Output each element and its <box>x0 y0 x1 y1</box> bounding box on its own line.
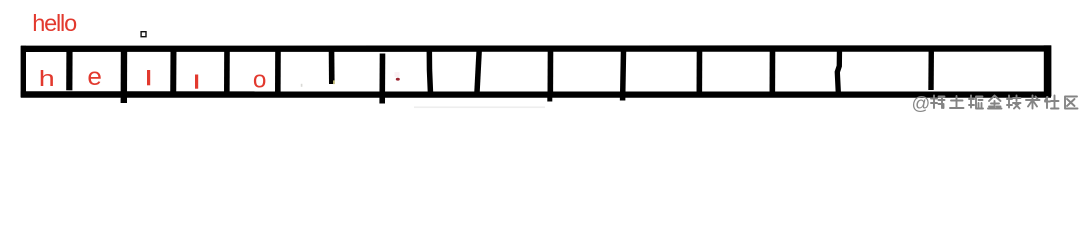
watermark char 社 <box>1045 96 1059 109</box>
divider 10 blob below <box>547 97 552 102</box>
divider 12 <box>696 48 702 97</box>
divider 11 <box>620 51 626 101</box>
watermark char 技 <box>1007 96 1021 109</box>
divider 15 (short, tapered) <box>928 48 934 90</box>
svg-text:hello: hello <box>32 10 77 36</box>
watermark char 区 <box>1065 97 1078 109</box>
cell letter l (second) <box>195 75 198 89</box>
faint gray smudge <box>301 84 303 87</box>
divider 10 <box>547 48 553 95</box>
svg-text:o: o <box>253 67 267 94</box>
svg-text:@: @ <box>912 93 931 114</box>
array box right border <box>1044 45 1052 96</box>
divider 2 <box>121 48 128 103</box>
watermark char 稀 <box>931 96 945 109</box>
watermark char 金 <box>988 96 1002 109</box>
divider 1 <box>66 48 72 90</box>
divider 4 <box>224 48 230 96</box>
divider 6 (short) <box>329 48 335 84</box>
watermark group <box>912 93 1078 114</box>
faint yellow smudge <box>333 80 335 84</box>
divider 13 <box>769 48 775 97</box>
divider 8 <box>429 48 430 96</box>
divider 5 <box>275 48 281 95</box>
watermark char 掘 <box>969 96 983 109</box>
small square marker <box>141 32 146 37</box>
divider 9 <box>477 48 480 96</box>
array box top border <box>21 45 1051 52</box>
watermark char 术 <box>1026 96 1040 109</box>
array box left border <box>21 46 26 97</box>
small red dot <box>396 78 400 81</box>
svg-text:e: e <box>87 64 102 91</box>
divider 14 <box>837 48 839 97</box>
cell letter l <box>147 70 150 85</box>
faint smear under box <box>414 106 545 108</box>
divider 3 <box>170 48 176 96</box>
svg-text:h: h <box>39 67 55 91</box>
array box bottom border <box>21 91 1051 97</box>
watermark char 土 <box>950 96 964 108</box>
divider 7 (overshoot) <box>379 54 385 104</box>
